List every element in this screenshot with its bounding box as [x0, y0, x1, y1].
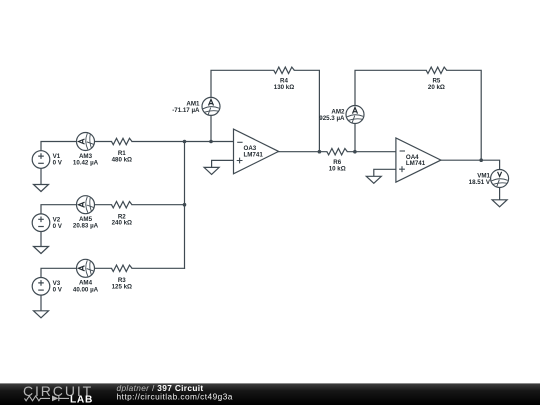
svg-text:-71.17 µA: -71.17 µA	[172, 107, 200, 114]
resistor R2 with labels	[112, 202, 133, 227]
wire OA4 output to VM1	[441, 160, 500, 170]
ground at OA3 non-inverting input	[204, 167, 219, 174]
ammeter AM2 with labels	[319, 106, 364, 124]
voltage source V2 with labels	[32, 214, 63, 232]
logo resistor-diode line	[25, 396, 70, 401]
ground below VM1	[492, 200, 507, 207]
svg-text:10.42 µA: 10.42 µA	[73, 160, 99, 167]
ammeter AM1 with labels	[172, 97, 220, 115]
ammeter AM4 with labels	[73, 259, 99, 293]
resistor R6 with labels	[327, 149, 348, 173]
node junction AM1 / row1	[209, 140, 213, 144]
svg-text:LM741: LM741	[244, 151, 264, 158]
svg-text:125 kΩ: 125 kΩ	[112, 283, 132, 290]
logo diode triangle	[52, 396, 59, 402]
resistor R1 with labels	[112, 138, 133, 163]
svg-text:LM741: LM741	[406, 160, 426, 167]
wire V3 ground stem	[40, 295, 42, 311]
wire V1 ground stem	[40, 168, 42, 184]
voltmeter VM1 with labels	[469, 170, 509, 188]
svg-text:20.83 µA: 20.83 µA	[73, 223, 99, 230]
svg-text:http://circuitlab.com/ct49g3a: http://circuitlab.com/ct49g3a	[117, 391, 233, 401]
resistor R3 with labels	[112, 265, 133, 290]
wire row2 from V2 to bus	[41, 205, 185, 215]
wire feedback loop 2 (AM2 up, over R5, down to OA4 output)	[355, 70, 481, 160]
svg-text:0 V: 0 V	[53, 286, 63, 293]
svg-text:10 kΩ: 10 kΩ	[329, 166, 346, 173]
ground below V2	[34, 247, 49, 254]
svg-text:LAB: LAB	[70, 394, 93, 405]
voltage source V1 with labels	[32, 151, 63, 169]
svg-text:480 kΩ: 480 kΩ	[112, 157, 132, 164]
svg-text:130 kΩ: 130 kΩ	[274, 84, 294, 91]
ammeter AM3 with labels	[73, 133, 99, 167]
ground at OA4 non-inverting input	[366, 176, 381, 183]
op-amp OA3	[234, 129, 279, 174]
wire vertical bus	[184, 142, 186, 269]
node junction at bus row1	[183, 140, 187, 144]
voltage source V3 with labels	[32, 278, 63, 296]
svg-text:0 V: 0 V	[53, 223, 63, 230]
node junction AM2 leg / R6 right	[353, 150, 357, 154]
node junction R5 leg / OA4 output	[479, 158, 483, 162]
op-amp OA4	[396, 138, 441, 182]
ground below V3	[34, 311, 49, 318]
wire V2 ground stem	[40, 232, 42, 247]
wire OA3 output row through R6 to OA4 inverting input	[279, 151, 396, 153]
ammeter AM5 with labels	[73, 196, 99, 230]
svg-text:0 V: 0 V	[53, 160, 63, 167]
svg-text:240 kΩ: 240 kΩ	[112, 220, 132, 227]
svg-text:40.00 µA: 40.00 µA	[73, 286, 99, 293]
wire OA4 non-inverting stub to ground	[374, 169, 396, 176]
svg-text:925.3 µA: 925.3 µA	[319, 115, 345, 122]
node junction at bus row2	[183, 203, 187, 207]
ground below V1	[34, 185, 49, 192]
svg-text:20 kΩ: 20 kΩ	[428, 84, 445, 91]
resistor R4 with labels	[274, 67, 295, 91]
svg-text:18.51 V: 18.51 V	[469, 179, 491, 186]
node junction R4 leg / OA3 output	[318, 150, 322, 154]
wire row1 from V1 to OA3 inverting input	[41, 142, 234, 152]
resistor R5 with labels	[426, 67, 447, 91]
wire VM1 ground stem	[499, 187, 501, 200]
wire feedback loop 1 (AM1 up, over R4, down to output)	[211, 70, 319, 151]
wire OA3 non-inverting stub to ground	[212, 160, 234, 167]
wire row3 from V3 to bus	[41, 268, 185, 278]
